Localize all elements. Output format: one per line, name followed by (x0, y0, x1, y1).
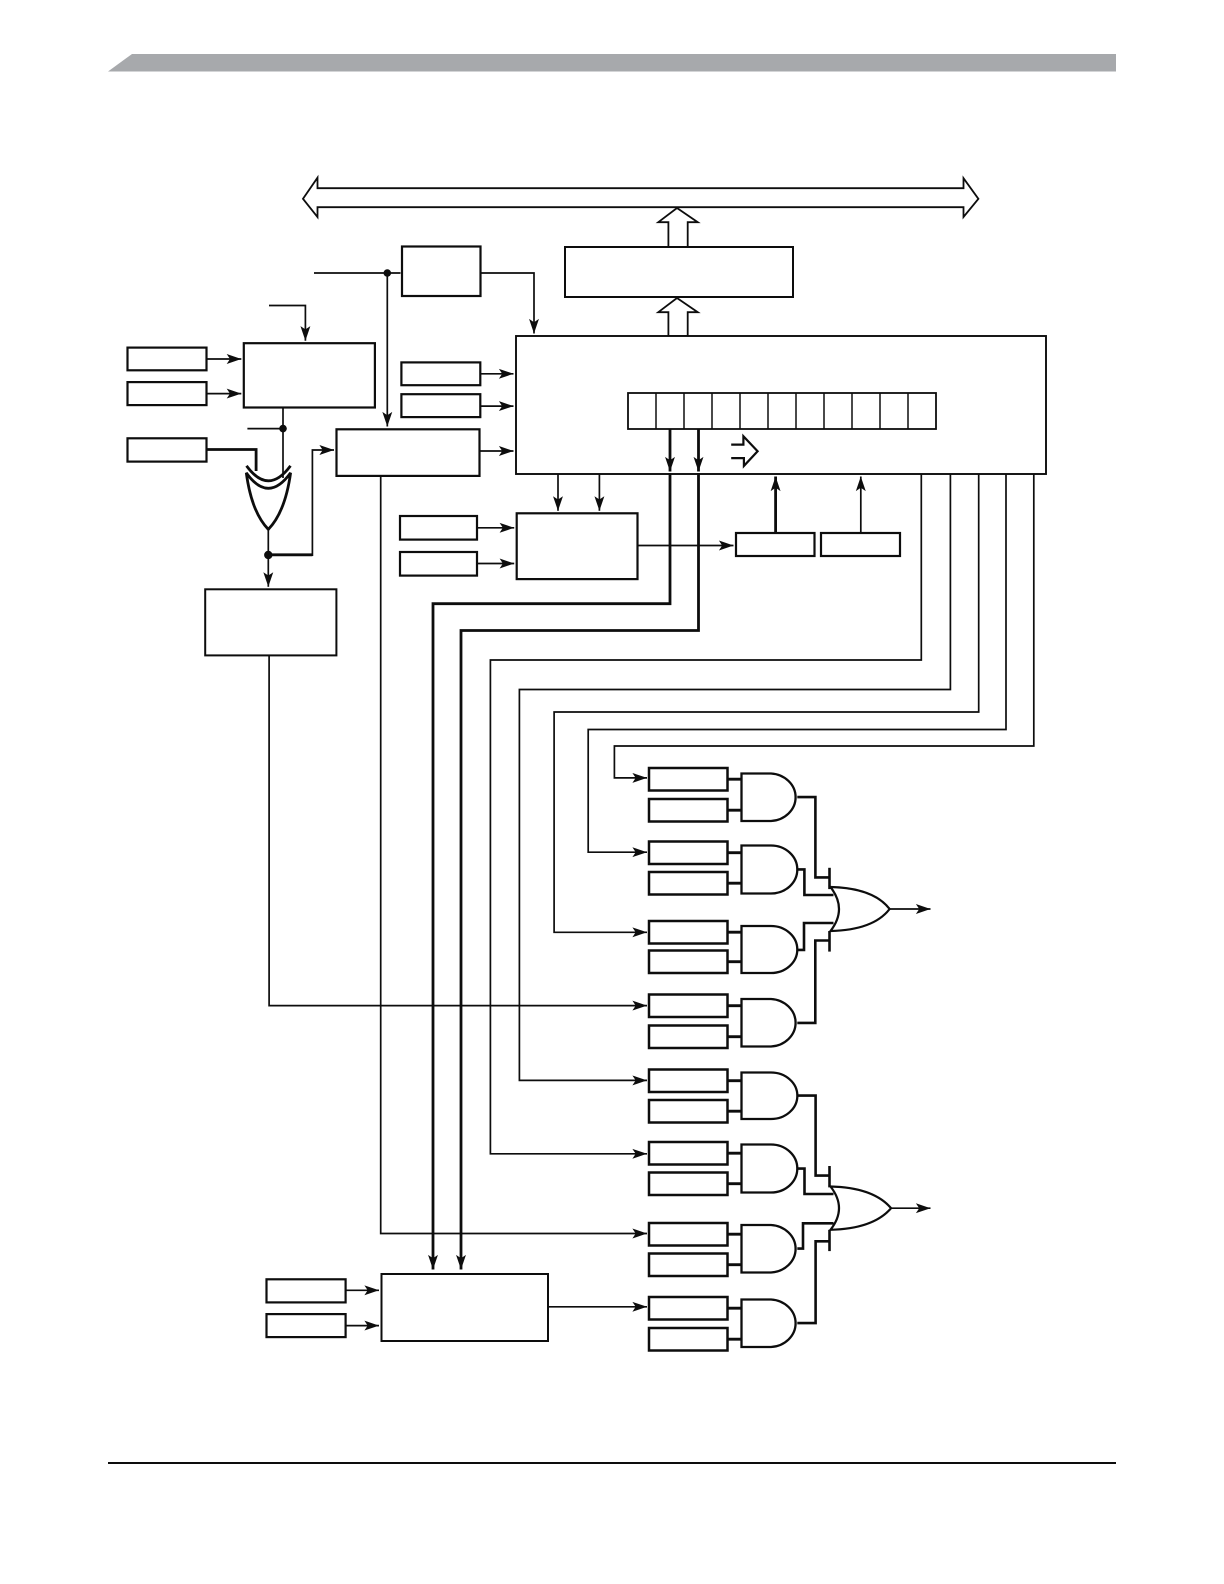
wire cell2 to U10 (left elbow) (433, 473, 670, 1270)
wire OR1 output (890, 908, 931, 910)
register R1 input (128, 348, 207, 371)
wire clock input to U3 (314, 272, 401, 274)
wire channel2 AND out (797, 923, 833, 950)
register channel7 value A (649, 1297, 728, 1320)
register channel3 value B (649, 1026, 728, 1049)
wire U4 to module (480, 450, 514, 452)
header gray banner (108, 54, 1116, 72)
wire XOR output down (267, 529, 269, 555)
AND gate channel6 (742, 1225, 796, 1273)
wire module out 2 to channel4 (519, 474, 950, 1080)
wire channel0 AND out (797, 797, 828, 877)
register channel7 value B (649, 1328, 728, 1351)
wire R6 to U6 (477, 527, 514, 529)
register channel2 value A (649, 921, 728, 944)
box U10 deadtime logic (382, 1274, 549, 1341)
hollow up arrow bus-interface to bus (658, 208, 698, 247)
box U4 prescaler (337, 429, 480, 476)
wire channel4 box B to AND (728, 1110, 742, 1113)
wire module out 5 to channel0 (614, 474, 1033, 778)
wire channel2 box B to AND (728, 960, 742, 963)
wire R3 to XOR input A (207, 450, 257, 472)
register channel3 value A (649, 995, 728, 1018)
XOR gate X1 (247, 466, 291, 481)
footer rule (108, 1462, 1116, 1464)
register R9 input (267, 1314, 346, 1337)
OR gate OR2 (831, 1187, 892, 1230)
wire module out 4 to channel1 (588, 474, 1006, 852)
wire channel3 box B to AND (728, 1035, 742, 1038)
wire R9 to U10 (346, 1325, 379, 1327)
wire R1 to U1 (207, 358, 242, 360)
wire OR1 input bar bottom (828, 931, 831, 952)
wire module out 1 to channel5 (490, 474, 921, 1154)
wire channel4 box A to AND (728, 1079, 742, 1082)
AND gate channel5 (742, 1145, 798, 1193)
wire channel7 box A to AND (728, 1307, 742, 1310)
wire module out 3 to channel2 (554, 474, 979, 932)
wire J3 to U4 input (268, 553, 312, 556)
wire channel3 box A to AND (728, 1004, 742, 1007)
register channel5 value A (649, 1142, 728, 1165)
wire stub into U1 top (269, 306, 305, 341)
wire U4 to channel6 (381, 476, 647, 1234)
wire J3 elbow up into U4 (312, 450, 334, 556)
wire channel5 AND out (797, 1169, 833, 1194)
register R7 status (400, 552, 477, 576)
wire channel1 box A to AND (728, 851, 742, 854)
register channel0 value B (649, 799, 728, 822)
register R6 status (400, 516, 477, 540)
AND gate channel7 (742, 1300, 796, 1348)
wire R7 to U6 (477, 563, 514, 565)
wire channel0 box B to AND (728, 809, 742, 812)
AND gate channel4 (742, 1073, 798, 1120)
wire U9 to channel3 (269, 655, 647, 1005)
AND gate channel0 (742, 774, 796, 822)
register R2 input (128, 382, 207, 405)
wire module to U6 right drop (598, 474, 600, 511)
wire R5 to module (480, 405, 513, 407)
node J2 junction (279, 425, 287, 433)
wire OR2 input bar bottom (828, 1230, 831, 1251)
wire U7 up to module (774, 477, 777, 534)
node J1 junction (384, 269, 392, 277)
wire U1 bottom to XOR input B (282, 408, 284, 479)
hollow up arrow module to bus-interface (658, 298, 698, 336)
register channel1 value B (649, 872, 728, 895)
wire R2 to U1 (207, 393, 242, 395)
wire channel0 box A to AND (728, 778, 742, 781)
wire cell3 to U10 (left elbow) (461, 473, 699, 1270)
register channel4 value A (649, 1070, 728, 1093)
AND gate channel1 (742, 846, 798, 894)
register channel6 value B (649, 1254, 728, 1277)
bus double-headed arrow (peripheral bus) (303, 178, 978, 217)
node J3 XOR output junction (264, 551, 272, 559)
register R4 control (401, 362, 480, 385)
wire U3 out to module top (481, 273, 535, 334)
wire channel6 box B to AND (728, 1263, 742, 1266)
register channel0 value A (649, 768, 728, 791)
open arrow glyph (shift direction) (731, 436, 757, 466)
wire module to U6 left drop (557, 474, 559, 511)
box U3 clock gate (402, 247, 481, 297)
register channel1 value A (649, 842, 728, 865)
wire channel1 box B to AND (728, 882, 742, 885)
box U8 holding register (821, 533, 900, 556)
register R3 input (128, 438, 207, 461)
register channel4 value B (649, 1100, 728, 1123)
wire J1 down to U4 top (386, 273, 388, 427)
wire channel6 box A to AND (728, 1233, 742, 1236)
box U2 bus interface (565, 247, 793, 297)
wire channel3 AND out (797, 941, 828, 1023)
wire channel1 AND out (797, 869, 833, 895)
wire J3 down to U9 (267, 555, 269, 587)
wire stub at J2 (247, 428, 283, 430)
wire OR2 output (891, 1207, 930, 1209)
wire OR2 input bar top (828, 1166, 831, 1187)
AND gate channel2 (742, 926, 798, 973)
wire U10 to channel7 (548, 1306, 647, 1308)
wire OR1 input bar top (828, 868, 831, 889)
box U1 clock select (244, 343, 375, 407)
wire channel5 box A to AND (728, 1152, 742, 1155)
box U6 compare logic (517, 513, 638, 579)
OR gate OR1 (831, 887, 890, 931)
register R5 control (401, 394, 480, 417)
box U5 counter module (516, 336, 1046, 474)
register channel2 value B (649, 951, 728, 974)
wire channel6 AND out (797, 1223, 833, 1248)
wire channel7 box B to AND (728, 1338, 742, 1341)
wire R8 to U10 (346, 1289, 379, 1291)
register channel5 value B (649, 1173, 728, 1196)
wire cell3 arrow onto module edge (697, 429, 700, 472)
wire channel4 AND out (797, 1096, 829, 1176)
wire U8 up to module (860, 477, 862, 534)
wire channel2 box A to AND (728, 931, 742, 934)
box U7 holding register (736, 533, 815, 556)
wire R4 to module (480, 373, 513, 375)
wire channel7 AND out (797, 1241, 829, 1323)
register R8 input (267, 1279, 346, 1302)
wire cell2 arrow onto module edge (669, 429, 672, 472)
register bit cells row (628, 393, 936, 429)
box U9 synchronizer (205, 589, 336, 655)
AND gate channel3 (742, 999, 796, 1047)
register channel6 value A (649, 1223, 728, 1246)
wire channel5 box B to AND (728, 1182, 742, 1185)
wire U6 to U7 (638, 545, 734, 547)
